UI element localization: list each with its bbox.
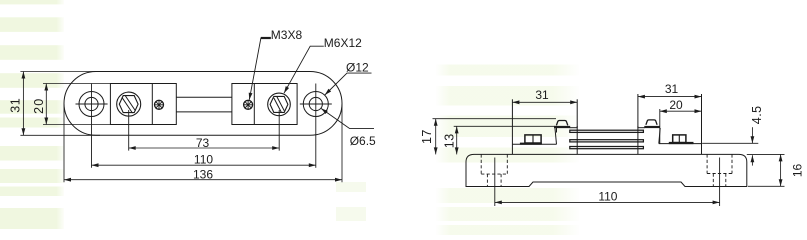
left M3 bolt head: [556, 121, 567, 126]
right M3 washer: [644, 126, 660, 128]
20 extension left: [659, 109, 661, 144]
left M3 washer: [554, 126, 570, 128]
dimension 31 left (side): [512, 101, 577, 103]
right M6 washer: [669, 142, 694, 144]
svg-text:110: 110: [194, 153, 213, 167]
svg-text:136: 136: [193, 168, 213, 182]
block 2 divider: [253, 84, 255, 125]
hole right centerlines: [300, 103, 332, 105]
right block slant: [659, 128, 660, 144]
strip band: [176, 96, 232, 98]
dimension 110 plan: [92, 164, 316, 166]
svg-text:13: 13: [442, 133, 456, 148]
base hole right dashed: [707, 154, 732, 186]
dimension 20 (side): [660, 110, 702, 112]
base plate outline: [466, 154, 747, 186]
right M6 bolt head: [673, 135, 686, 143]
base hole left dashed: [481, 154, 507, 186]
left seat top stub: [570, 127, 578, 129]
stadium body outline: [64, 72, 342, 136]
green stripes left swath: [0, 0, 64, 229]
17 extension line: [433, 118, 557, 120]
dimension 17: [435, 119, 437, 155]
dimension 136: [64, 104, 342, 182]
left M6 bolt head: [525, 135, 541, 143]
terminal block 1: [110, 84, 176, 125]
right seat top stub: [638, 127, 645, 129]
base hole left centerline: [494, 158, 496, 207]
dimension 13: [456, 126, 458, 154]
left block slant: [555, 126, 557, 144]
left block ledge: [512, 143, 556, 145]
screw M6 right: [268, 93, 291, 116]
dimension 73: [129, 147, 280, 149]
svg-text:31: 31: [9, 98, 23, 113]
svg-text:31: 31: [665, 82, 679, 96]
dimension 110 (side): [495, 201, 720, 203]
mounting hole left: [79, 92, 104, 117]
svg-text:M6X12: M6X12: [324, 36, 362, 50]
screw M6 left: [117, 92, 141, 116]
green stripes bottom-left spill: [336, 182, 366, 221]
base hole right centerline: [719, 158, 721, 207]
dimension 31 plan: [20, 72, 100, 136]
left seat right edge extension: [576, 99, 578, 128]
screw M3 right: [244, 100, 253, 109]
svg-text:16: 16: [791, 164, 805, 178]
right M3 bolt head: [646, 120, 657, 125]
svg-text:20: 20: [669, 98, 683, 112]
svg-text:20: 20: [32, 98, 46, 114]
svg-text:31: 31: [535, 88, 549, 102]
svg-text:4.5: 4.5: [750, 105, 764, 124]
left block left edge: [511, 99, 513, 154]
svg-text:Ø12: Ø12: [346, 61, 369, 75]
dimension 31 right (side): [638, 96, 702, 98]
left block top edge: [454, 125, 555, 127]
svg-text:110: 110: [598, 190, 617, 204]
left seat right edge over strips: [576, 126, 578, 154]
svg-text:73: 73: [196, 136, 210, 150]
dimension 4.5: [702, 127, 758, 165]
block 1 divider: [151, 84, 153, 125]
svg-text:17: 17: [420, 129, 434, 144]
right seat left edge over strips: [637, 126, 639, 154]
terminal block 2: [232, 84, 297, 125]
manganin strips: [570, 130, 644, 132]
screw M3 left: [155, 100, 164, 109]
dimension 16: [747, 154, 785, 186]
right seat left edge extension: [637, 94, 639, 128]
mounting hole right: [303, 92, 328, 117]
screw M6 right centerline: [278, 110, 280, 151]
right block right edge: [701, 94, 703, 154]
left seat left edge: [556, 128, 558, 133]
svg-text:M3X8: M3X8: [271, 28, 303, 42]
svg-text:Ø6.5: Ø6.5: [350, 134, 376, 148]
hole left centerlines: [76, 103, 108, 105]
green stripes middle swath: [436, 65, 579, 236]
dimension 20 plan: [43, 84, 110, 125]
right block ledge: [659, 143, 702, 145]
screw M6 left centerline: [128, 110, 130, 151]
left M6 washer: [520, 143, 542, 145]
